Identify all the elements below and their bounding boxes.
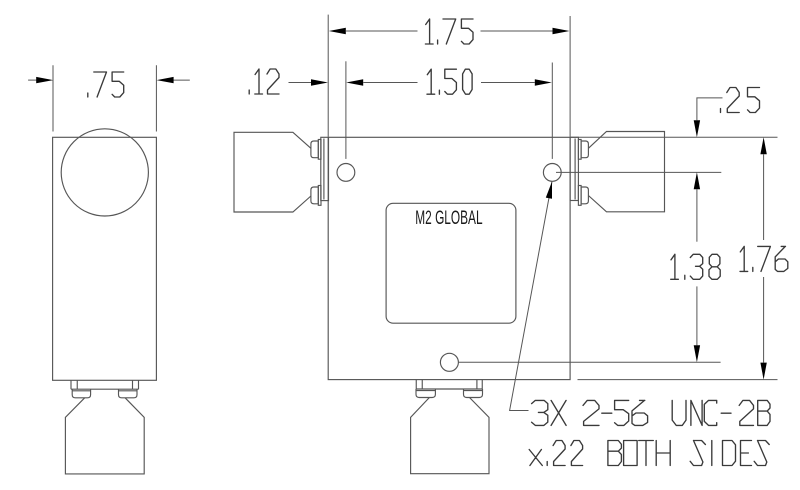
dimension text .25 (721, 88, 760, 113)
front bottom connector stubs (416, 380, 482, 389)
extension line body bottom edge (578, 379, 778, 381)
dimension 1.75 line and arrows (329, 28, 346, 34)
side view connector housing (65, 398, 144, 474)
dimension text 1.50 (427, 69, 472, 94)
extension line hole centerline (556, 171, 721, 173)
dimension 1.38 line and arrows (694, 172, 700, 189)
dimension text .75 (88, 72, 124, 97)
left top bolt head (311, 141, 318, 158)
side view connector cross line (71, 388, 139, 390)
mounting hole top-right (543, 164, 561, 182)
right top bolt washer (578, 140, 581, 160)
right bottom bolt washer (578, 186, 581, 206)
right waveguide block (588, 132, 664, 212)
extension line bottom hole centerline (459, 361, 721, 363)
dimension .25 leader and arrows (697, 98, 723, 120)
side view circular boss (61, 129, 148, 216)
mounting hole bottom-center (440, 353, 458, 371)
front right nut (464, 389, 483, 398)
dimension text 1.75 (425, 19, 473, 44)
dimension .75 extension lines (53, 65, 156, 131)
left flange inner line (323, 139, 325, 200)
svg-text:M2 GLOBAL: M2 GLOBAL (415, 207, 482, 229)
front left nut (416, 389, 435, 398)
side view bottom connector stubs (71, 380, 139, 389)
left bottom bolt head (311, 187, 318, 204)
side view right nut (119, 389, 138, 398)
note text line 1: 3X 2-56 UNC-2B (532, 400, 770, 425)
right flange plate (570, 137, 578, 200)
extension line right hole center (551, 63, 553, 159)
nameplate (386, 203, 516, 323)
left top bolt washer (318, 140, 321, 160)
dimension .75 arrows and lines (28, 79, 38, 81)
dimension text 1.38 (671, 254, 721, 279)
front connector cross line (416, 388, 482, 390)
extension line body left edge (327, 15, 329, 137)
left flange plate (321, 137, 329, 200)
front connector housing (411, 398, 489, 474)
left bottom bolt washer (318, 186, 321, 206)
right top bolt head (581, 141, 588, 158)
dimension text 1.76 (740, 246, 788, 271)
extension line left hole center (345, 61, 347, 159)
front view body outline (328, 137, 570, 379)
dimension 1.76 line and arrows (760, 137, 766, 154)
side view left nut (72, 389, 90, 398)
note leader line (510, 182, 552, 411)
right bottom bolt head (581, 187, 588, 204)
dimension text .12 (249, 69, 279, 94)
note text line 2: x.22 BOTH SIDES (529, 441, 769, 466)
extension line body right edge (569, 16, 571, 137)
extension line body top edge (570, 136, 777, 138)
left waveguide block (234, 132, 311, 212)
side view body outline (53, 137, 157, 380)
mounting hole top-left (337, 164, 355, 182)
dimension .12 line and arrow (289, 82, 313, 84)
dimension 1.50 line and arrows (346, 79, 363, 85)
right flange inner line (574, 139, 576, 200)
